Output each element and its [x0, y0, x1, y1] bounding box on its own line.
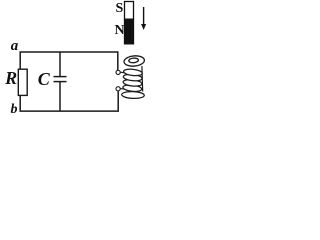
- coil L top ring: [124, 55, 145, 67]
- capacitor plate top: [54, 76, 67, 78]
- terminal node bottom: [116, 87, 120, 91]
- magnet pole S: [116, 2, 124, 16]
- wire bottom (node b to coil bottom terminal): [20, 91, 118, 111]
- node b label: [11, 103, 18, 117]
- node a label: [11, 39, 19, 54]
- resistor label R: [5, 69, 17, 87]
- coil terminal stub top: [120, 71, 125, 74]
- capacitor C branch: [54, 52, 67, 111]
- capacitor label C: [38, 70, 50, 88]
- magnet bar outline (S pole, white): [125, 2, 134, 44]
- magnet motion arrow (down): [141, 7, 146, 30]
- wire cap bottom lead: [59, 82, 61, 112]
- coil L turns (drawn bottom to top, white fill so upper occludes lower): [122, 68, 145, 98]
- wire cap top lead: [59, 52, 61, 77]
- wire top (node a to coil top terminal): [20, 52, 118, 70]
- magnet N pole (black): [125, 19, 134, 44]
- magnet pole N: [115, 24, 125, 38]
- coil right edge: [141, 66, 144, 92]
- coil terminal stub bottom: [120, 88, 125, 90]
- resistor R box: [18, 69, 27, 95]
- terminal node top: [116, 70, 120, 74]
- capacitor plate bottom: [54, 81, 67, 83]
